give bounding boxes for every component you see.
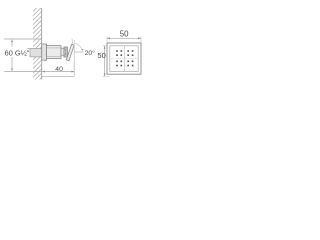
- svg-text:40: 40: [55, 66, 63, 73]
- svg-text:50: 50: [120, 30, 129, 39]
- svg-text:50: 50: [97, 51, 105, 60]
- svg-text:60 G½": 60 G½": [5, 49, 30, 58]
- svg-text:20°: 20°: [85, 49, 96, 57]
